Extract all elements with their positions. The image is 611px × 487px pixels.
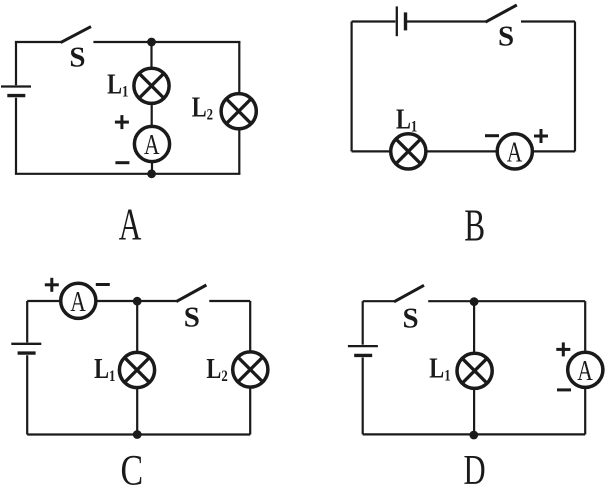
wire C top-mid (ammeter to switch) bbox=[96, 300, 177, 302]
wire A bottom horizontal bbox=[15, 173, 241, 175]
minus mark of ammeter (circuit D) bbox=[557, 388, 571, 391]
wire A left vertical upper (to battery) bbox=[15, 42, 17, 85]
node: circuit A top junction bbox=[147, 38, 156, 47]
switch S blade (circuit B) bbox=[486, 5, 517, 22]
switch S blade (circuit C) bbox=[176, 285, 206, 302]
wire C top-left (corner to ammeter) bbox=[27, 300, 60, 302]
wire C top-right (switch to corner) bbox=[209, 300, 250, 302]
wire C right vertical lower bbox=[249, 387, 251, 435]
wire B bottom-right (ammeter to corner) bbox=[533, 150, 576, 152]
svg-text:S: S bbox=[403, 303, 419, 335]
wire C bottom horizontal bbox=[27, 433, 250, 435]
svg-text:S: S bbox=[498, 21, 514, 53]
wire A ammeter to bottom junction bbox=[151, 161, 153, 174]
lamp L1 (circuit B) bbox=[391, 134, 426, 169]
plus mark of ammeter (circuit B) bbox=[534, 129, 548, 143]
ammeter A (circuit A) bbox=[134, 126, 169, 161]
node: circuit C top junction bbox=[133, 297, 142, 306]
node: circuit D top junction bbox=[470, 297, 479, 306]
wire B top-right (switch to corner) bbox=[521, 20, 575, 22]
wire A right vertical lower bbox=[238, 129, 240, 174]
wire A junction down to lamp L1 bbox=[150, 42, 152, 69]
wire A right vertical upper bbox=[238, 42, 240, 94]
lamp L1 (circuit D) bbox=[457, 353, 492, 388]
minus mark of ammeter (circuit C) bbox=[96, 283, 110, 286]
wire D right vertical upper bbox=[584, 301, 586, 353]
svg-text:A: A bbox=[507, 138, 523, 168]
wire A top-left (battery to switch) bbox=[15, 41, 61, 43]
lamp L2 (circuit C) bbox=[233, 352, 268, 387]
lamp L2 (circuit A) bbox=[221, 94, 256, 129]
wire D left vertical upper (to battery) bbox=[362, 301, 364, 345]
plus mark of ammeter (circuit D) bbox=[556, 342, 570, 356]
wire D left vertical lower (from battery) bbox=[362, 358, 364, 435]
plus mark of ammeter (circuit A) bbox=[115, 115, 129, 129]
plus mark of ammeter (circuit C) bbox=[45, 278, 59, 292]
switch S blade (circuit D) bbox=[394, 285, 424, 302]
wire B top-mid (battery to switch) bbox=[407, 20, 486, 22]
svg-text:D: D bbox=[464, 446, 486, 487]
wire C left vertical lower (from battery) bbox=[26, 355, 28, 434]
battery short plate (circuit B) bbox=[404, 12, 407, 30]
svg-text:B: B bbox=[464, 199, 485, 250]
node: circuit A bottom junction bbox=[147, 169, 156, 178]
battery short plate (circuit D) bbox=[354, 354, 372, 357]
wire D middle branch lower bbox=[473, 388, 475, 435]
ammeter A (circuit C) bbox=[61, 283, 96, 318]
minus mark of ammeter (circuit A) bbox=[115, 161, 129, 164]
wire A lamp L1 to ammeter bbox=[151, 103, 153, 127]
wire C middle branch lower bbox=[136, 388, 138, 435]
wire A top (switch to right corner) bbox=[93, 41, 240, 43]
wire C left vertical upper (to battery) bbox=[26, 301, 28, 342]
wire D bottom horizontal bbox=[363, 433, 586, 435]
svg-text:S: S bbox=[184, 302, 200, 334]
wire B right vertical bbox=[574, 22, 576, 152]
svg-text:A: A bbox=[577, 356, 593, 386]
svg-text:A: A bbox=[144, 130, 160, 160]
switch S blade (circuit A) bbox=[61, 27, 91, 43]
svg-text:S: S bbox=[69, 42, 85, 74]
minus mark of ammeter (circuit B) bbox=[485, 134, 499, 137]
svg-text:A: A bbox=[70, 287, 86, 317]
wire B left vertical bbox=[351, 22, 353, 152]
node: circuit D bottom junction bbox=[469, 431, 478, 440]
ammeter A (circuit D) bbox=[568, 352, 603, 387]
battery long plate (circuit C) bbox=[11, 343, 41, 345]
wire C right vertical upper bbox=[249, 301, 251, 353]
battery short plate (circuit C) bbox=[18, 351, 36, 354]
battery short plate (circuit A) bbox=[7, 94, 25, 97]
lamp L1 (circuit C) bbox=[119, 352, 154, 387]
svg-text:A: A bbox=[119, 199, 142, 250]
battery long plate (circuit D) bbox=[348, 345, 378, 347]
wire B bottom-left (corner to lamp) bbox=[352, 150, 390, 152]
wire D right vertical lower bbox=[584, 387, 586, 434]
wire C middle branch upper bbox=[136, 301, 138, 353]
battery long plate (circuit B) bbox=[396, 6, 398, 36]
wire D top-left (corner to switch) bbox=[363, 300, 395, 302]
ammeter A (circuit B) bbox=[497, 134, 532, 169]
wire B top-left (corner to battery) bbox=[352, 20, 396, 22]
wire D top (switch to right corner) bbox=[428, 300, 585, 302]
node: circuit C bottom junction bbox=[133, 430, 142, 439]
wire A left vertical lower (from battery) bbox=[15, 98, 17, 174]
lamp L1 (circuit A) bbox=[134, 68, 169, 103]
svg-text:C: C bbox=[121, 447, 144, 487]
battery long plate (circuit A) bbox=[1, 85, 31, 87]
wire B bottom-mid (lamp to ammeter) bbox=[427, 150, 498, 152]
wire D middle branch upper bbox=[473, 301, 475, 353]
